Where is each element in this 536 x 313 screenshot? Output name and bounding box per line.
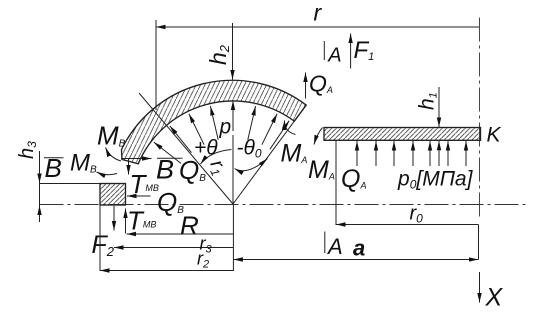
svg-text:h3: h3: [16, 141, 39, 159]
svg-text:A: A: [326, 234, 343, 259]
svg-text:K: K: [487, 124, 502, 147]
svg-text:QA: QA: [309, 71, 333, 97]
svg-text:h1: h1: [416, 92, 440, 110]
svg-text:TМВ: TМВ: [130, 169, 159, 199]
svg-text:r0: r0: [410, 203, 424, 226]
svg-text:QA: QA: [341, 165, 366, 193]
svg-text:B: B: [156, 155, 174, 185]
svg-text:-θ0: -θ0: [237, 137, 262, 161]
svg-text:QB: QB: [179, 155, 206, 185]
svg-text:r: r: [314, 0, 323, 26]
svg-text:p: p: [219, 116, 232, 139]
svg-text:MB: MB: [97, 121, 126, 151]
svg-text:MB: MB: [70, 150, 97, 177]
svg-text:F1: F1: [354, 37, 375, 64]
svg-text:A: A: [327, 45, 341, 67]
svg-text:MA: MA: [308, 156, 335, 184]
svg-text:MA: MA: [281, 140, 308, 168]
svg-text:h2: h2: [205, 44, 232, 65]
svg-text:F2: F2: [92, 231, 115, 259]
svg-text:X: X: [485, 284, 504, 312]
svg-text:p0[МПа]: p0[МПа]: [397, 168, 474, 192]
svg-text:TМВ: TМВ: [127, 206, 156, 236]
svg-text:a: a: [353, 236, 365, 261]
svg-text:R: R: [180, 211, 199, 241]
